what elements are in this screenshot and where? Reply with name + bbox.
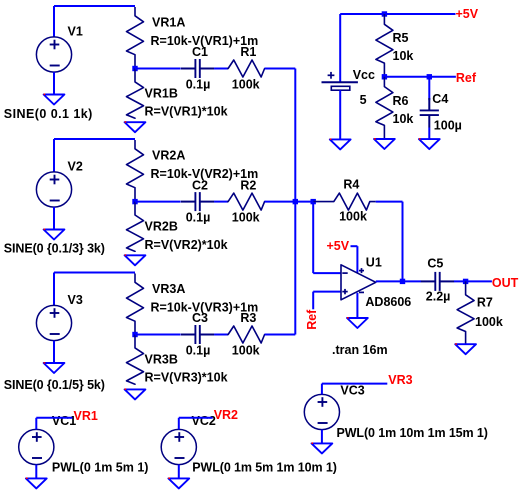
wire R4 to output: [376, 201, 403, 203]
voltage source VC1: [19, 429, 54, 464]
resistor R4: [313, 193, 376, 210]
capacitor C1: [181, 59, 214, 78]
wire node to C1: [135, 68, 181, 70]
ground under VC1: [26, 477, 47, 488]
wire VC3 to net label: [321, 384, 323, 395]
voltage source V1: [36, 37, 71, 72]
wire VC2 to ground: [178, 465, 180, 479]
svg-text:Ref: Ref: [456, 71, 477, 85]
node junction block 2: [132, 199, 137, 204]
ground under R6: [374, 138, 395, 149]
capacitor C3: [181, 325, 214, 344]
wire battery to ground: [339, 90, 341, 139]
wire node to C3: [135, 334, 181, 336]
wire C3 to R3: [214, 334, 228, 336]
ground under battery: [330, 138, 351, 149]
resistor R7: [457, 281, 474, 344]
wire non-inverting input from Ref: [312, 292, 314, 310]
svg-text:VR3B: VR3B: [145, 353, 178, 367]
node R4 / inverting input: [311, 199, 316, 204]
svg-text:C5: C5: [427, 257, 443, 271]
svg-text:5: 5: [360, 93, 367, 107]
wire VC3 to ground: [321, 430, 323, 444]
svg-text:AD8606: AD8606: [365, 295, 411, 309]
svg-text:C4: C4: [432, 92, 448, 106]
svg-text:PWL(0 1m 5m 1m 10m 1): PWL(0 1m 5m 1m 10m 1): [192, 460, 336, 474]
resistor R2: [227, 193, 266, 210]
svg-text:R=V(VR2)*10k: R=V(VR2)*10k: [145, 238, 228, 252]
node +5V rail / R5: [382, 11, 387, 16]
svg-text:SINE(0 {0.1/3} 3k): SINE(0 {0.1/3} 3k): [4, 242, 105, 256]
svg-text:R4: R4: [343, 178, 359, 192]
wire V2 to ground: [53, 207, 55, 229]
svg-text:SINE(0 {0.1/5} 5k): SINE(0 {0.1/5} 5k): [4, 378, 105, 392]
resistor VR2A: [127, 140, 144, 202]
resistor R1: [227, 60, 266, 77]
op-amp U1 AD8606: [341, 265, 376, 300]
wire top of block 2: [54, 138, 135, 140]
wire C2 to R2: [214, 201, 228, 203]
svg-text:VR1B: VR1B: [145, 87, 178, 101]
wire VC1 to net label: [35, 418, 37, 430]
resistor VR1A: [127, 7, 144, 69]
voltage source VC3: [304, 394, 339, 429]
svg-text:VR1: VR1: [74, 409, 98, 423]
wire inverting input: [312, 202, 314, 274]
ground under V3: [44, 362, 65, 373]
svg-text:VC3: VC3: [340, 384, 364, 398]
wire V1 to ground: [53, 72, 55, 94]
ground under VR1B: [125, 121, 146, 132]
svg-text:VR1A: VR1A: [152, 16, 185, 30]
node Ref rail / R6: [382, 74, 387, 79]
voltage source V3: [36, 305, 71, 340]
svg-text:Ref: Ref: [305, 309, 319, 330]
wire top of block 3: [54, 272, 135, 274]
svg-text:100µ: 100µ: [434, 119, 462, 133]
ground under VC2: [168, 477, 189, 488]
svg-text:100k: 100k: [475, 315, 503, 329]
node junction block 1: [132, 66, 137, 71]
svg-text:100k: 100k: [232, 77, 260, 91]
wire top of block 1: [54, 5, 135, 7]
wire C5 to OUT: [454, 280, 492, 282]
svg-text:VC2: VC2: [192, 414, 216, 428]
ground under VC3: [312, 442, 333, 453]
ground under VR2B: [125, 254, 146, 265]
wire op-amp output: [376, 280, 421, 282]
wire bus to R4 row: [295, 201, 313, 203]
svg-text:2.2µ: 2.2µ: [426, 290, 451, 304]
wire Ref rail to C4: [428, 77, 430, 100]
svg-text:OUT: OUT: [492, 276, 519, 290]
ground under V1: [44, 94, 65, 105]
svg-text:C3: C3: [192, 311, 208, 325]
node junction block 3: [132, 332, 137, 337]
wire node to C2: [135, 201, 181, 203]
svg-text:.tran 16m: .tran 16m: [332, 343, 388, 357]
ground under C4: [419, 138, 440, 149]
capacitor C5: [421, 272, 454, 291]
wire R1 to summing bus: [265, 68, 296, 70]
svg-text:VR3A: VR3A: [152, 282, 185, 296]
svg-text:10k: 10k: [393, 49, 414, 63]
svg-text:100k: 100k: [232, 343, 260, 357]
svg-text:R=V(VR1)*10k: R=V(VR1)*10k: [145, 105, 228, 119]
resistor R3: [227, 326, 266, 343]
resistor R5: [376, 14, 393, 77]
wire op-amp V- pin to ground: [356, 293, 358, 318]
wire C1 to R1: [214, 68, 228, 70]
svg-text:V3: V3: [68, 293, 83, 307]
svg-text:100k: 100k: [339, 210, 367, 224]
capacitor C4: [420, 98, 439, 128]
ground under VR3B: [125, 388, 146, 399]
resistor VR3B: [127, 335, 144, 385]
svg-text:R6: R6: [393, 94, 409, 108]
ground under V2: [44, 229, 65, 240]
ground under R7: [455, 343, 476, 354]
wire +5V to op-amp V+ pin: [351, 245, 358, 247]
voltage source V2: [36, 172, 71, 207]
svg-text:+5V: +5V: [327, 239, 350, 253]
svg-text:U1: U1: [366, 256, 382, 270]
svg-text:100k: 100k: [232, 210, 260, 224]
svg-text:0.1µ: 0.1µ: [186, 77, 211, 91]
svg-text:R=V(VR3)*10k: R=V(VR3)*10k: [145, 371, 228, 385]
svg-text:PWL(0 1m 5m 1): PWL(0 1m 5m 1): [52, 460, 149, 474]
wire summing bus: [294, 69, 296, 335]
svg-text:SINE(0 0.1 1k): SINE(0 0.1 1k): [4, 107, 93, 121]
svg-text:PWL(0 1m 10m 1m 15m 1): PWL(0 1m 10m 1m 15m 1): [337, 426, 488, 440]
svg-text:V1: V1: [68, 25, 83, 39]
svg-text:0.1µ: 0.1µ: [186, 343, 211, 357]
resistor VR3A: [127, 274, 144, 335]
wire V3 to ground: [53, 341, 55, 363]
svg-text:R5: R5: [393, 31, 409, 45]
svg-text:VR2A: VR2A: [152, 149, 185, 163]
svg-text:C1: C1: [192, 45, 208, 59]
ground under op-amp: [347, 317, 368, 328]
capacitor C2: [181, 192, 214, 211]
svg-text:R2: R2: [240, 178, 256, 192]
svg-text:R7: R7: [477, 295, 493, 309]
node C5 / R7: [463, 279, 468, 284]
node C4: [427, 74, 432, 79]
resistor VR2B: [127, 202, 144, 252]
wire R3 to summing bus: [265, 334, 296, 336]
svg-text:10k: 10k: [393, 112, 414, 126]
svg-text:R1: R1: [240, 45, 256, 59]
node summing bus / R2: [293, 199, 298, 204]
svg-text:Vcc: Vcc: [353, 68, 375, 82]
svg-text:R3: R3: [240, 311, 256, 325]
wire Ref rail: [384, 76, 456, 78]
wire VC2 to net label: [178, 418, 180, 430]
resistor VR1B: [127, 69, 144, 119]
svg-text:VR3: VR3: [388, 373, 412, 387]
svg-text:C2: C2: [192, 178, 208, 192]
wire C4 to ground: [428, 128, 430, 140]
resistor R6: [376, 77, 393, 139]
wire VC1 to ground: [35, 465, 37, 479]
svg-text:VR2B: VR2B: [145, 220, 178, 234]
wire +5V rail: [340, 13, 455, 15]
node output / R4: [400, 279, 405, 284]
svg-text:0.1µ: 0.1µ: [186, 210, 211, 224]
wire R2 to summing bus: [265, 201, 296, 203]
battery Vcc: [339, 14, 341, 82]
voltage source VC2: [161, 429, 196, 464]
svg-text:VR2: VR2: [214, 408, 238, 422]
svg-text:+5V: +5V: [456, 7, 479, 21]
svg-text:V2: V2: [68, 160, 83, 174]
